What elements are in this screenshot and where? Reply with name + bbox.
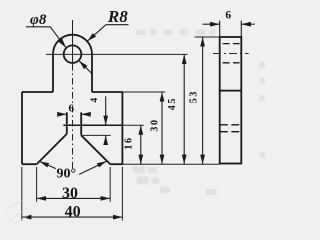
side view outline <box>220 37 242 164</box>
notch corner extension left <box>36 167 38 202</box>
leader 90 right <box>79 161 106 174</box>
side extension right <box>240 21 242 37</box>
notch corner extension right <box>109 167 111 202</box>
faint scan artifacts <box>133 29 265 195</box>
dim 6 side left arrow <box>203 23 220 25</box>
dim 30 bottom line <box>37 197 110 199</box>
dim phi8 leader arrow <box>50 27 66 48</box>
dim 45 line <box>183 55 185 165</box>
outer boss arc R8 <box>53 35 92 54</box>
left edge wire <box>21 92 23 164</box>
slot right wall wire <box>80 112 82 135</box>
shoulder extension right <box>122 91 165 93</box>
dim R8 leader arrow <box>87 25 106 41</box>
svg-text:45: 45 <box>167 97 178 110</box>
dim 6 side right arrow <box>241 23 254 25</box>
dim 16 line <box>140 125 142 164</box>
svg-text:6: 6 <box>225 10 231 22</box>
dim 53 line <box>202 37 204 164</box>
svg-text:4: 4 <box>90 98 100 103</box>
side view hidden line slot bottom <box>220 131 241 133</box>
dim 6 slot right arrow <box>81 113 89 115</box>
svg-text:R8: R8 <box>107 7 128 26</box>
vertical centerline dashed lower <box>72 64 74 170</box>
dim 6 slot left arrow <box>58 113 66 115</box>
horizontal centerline <box>46 53 188 55</box>
dim R8 underline <box>106 24 129 26</box>
top extension for 53 <box>195 36 220 38</box>
bottom right foot wire <box>110 163 122 165</box>
notch left slope wire <box>37 134 67 164</box>
bottom left foot wire <box>22 163 37 165</box>
hole circle φ8 <box>64 45 82 63</box>
dim 4 upper line arrow <box>105 96 107 125</box>
step extension line <box>122 124 143 126</box>
svg-text:30: 30 <box>150 118 161 131</box>
dim 4 lower line arrow <box>105 136 107 144</box>
shoulder left wire <box>22 91 53 93</box>
bottom extension right <box>122 163 219 165</box>
dim phi8 lower arrow <box>79 61 92 74</box>
slope-top extension line <box>81 134 111 136</box>
boss left side wire <box>52 54 54 92</box>
step line wire <box>63 124 122 126</box>
side view centerline <box>213 53 249 55</box>
dim phi8 underline <box>26 26 50 28</box>
dim 40 bottom line <box>22 216 122 218</box>
notch right slope wire <box>81 135 110 164</box>
side view hidden line step <box>220 124 241 126</box>
svg-text:6: 6 <box>69 102 75 114</box>
side extension left <box>219 21 221 37</box>
svg-text:φ8: φ8 <box>30 12 47 28</box>
svg-text:53: 53 <box>189 90 200 103</box>
outer corner extension left <box>21 167 23 221</box>
dim 30 right line <box>161 92 163 164</box>
shoulder right wire <box>92 91 122 93</box>
boss right side wire <box>91 54 93 92</box>
side view shoulder line <box>220 90 242 92</box>
side view hole hidden line top <box>223 43 240 45</box>
vertical centerline upper <box>72 20 74 64</box>
side view hole hidden line bottom <box>223 62 240 64</box>
svg-text:16: 16 <box>123 136 134 149</box>
svg-text:30: 30 <box>62 185 78 202</box>
leader 90 left <box>40 161 56 168</box>
right edge wire <box>121 92 123 164</box>
svg-text:90°: 90° <box>56 167 76 182</box>
slot left wall wire <box>66 112 68 134</box>
svg-text:40: 40 <box>65 204 81 221</box>
outer corner extension right <box>121 167 123 221</box>
